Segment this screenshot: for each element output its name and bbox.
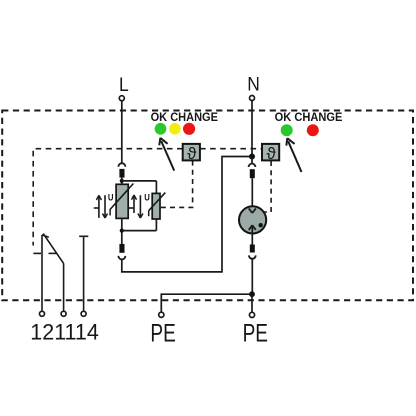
varistor V2 diagonal foot: [148, 210, 150, 216]
fuse element upper left branch: [119, 169, 124, 178]
junction dot PE: [249, 291, 255, 297]
svg-text:ϑ: ϑ: [187, 144, 197, 163]
thermal disconnect box theta (left): [183, 144, 200, 163]
wire fuse to top rail: [121, 178, 123, 185]
varistor V1 u-arrows group: [94, 195, 108, 218]
LED red (left): [183, 123, 195, 135]
wire N branch down to PE junction: [251, 259, 253, 294]
wire gas tube to fuse: [251, 233, 253, 244]
LED green (left): [155, 123, 167, 135]
wire to right varistor top: [155, 181, 157, 194]
svg-text:PE: PE: [243, 319, 268, 347]
changeover switch lever: [43, 234, 63, 264]
svg-text:L: L: [119, 75, 129, 96]
enclosure outer dashed border: [2, 111, 413, 301]
svg-text:U: U: [108, 192, 114, 202]
terminal circle 12: [40, 311, 45, 316]
thermal disconnect box theta (right): [262, 144, 279, 163]
top rail wire: [122, 180, 157, 182]
switch actuator link bar: [33, 252, 41, 254]
svg-text:U: U: [144, 192, 150, 202]
fuse element upper N branch: [250, 169, 255, 178]
varistor V1 diagonal: [110, 184, 133, 210]
junction dot bottom rail: [120, 229, 124, 233]
mechanical linkage dashed: left thermal box to switch actuator (inner dashed L): [33, 149, 182, 246]
wire arrow into gas discharge tube: [251, 178, 253, 212]
svg-text:N: N: [247, 74, 260, 96]
junction dot N: [249, 154, 255, 160]
changeover switch terminal 14 wire: [83, 236, 85, 311]
gas tube electrode dot: [259, 223, 263, 227]
svg-text:OK CHANGE: OK CHANGE: [275, 110, 343, 124]
terminal circle 11: [61, 311, 66, 316]
disconnect arc upper N branch: [249, 164, 256, 167]
terminal L circle: [119, 96, 124, 101]
svg-text:PE: PE: [150, 319, 175, 347]
disconnect arc upper left branch: [118, 163, 125, 166]
varistor V2 body: [152, 193, 160, 219]
PE rail wire: [161, 294, 252, 312]
varistor V1 body: [116, 184, 128, 218]
svg-text:OK CHANGE: OK CHANGE: [151, 110, 218, 124]
wire L down: [121, 101, 123, 163]
junction dot top rail: [120, 179, 124, 183]
thermal sensing dashed link: right box down to gas tube: [264, 161, 271, 212]
svg-text:ϑ: ϑ: [266, 144, 276, 163]
gas discharge tube body: [239, 206, 266, 233]
mechanical linkage dashed: left box to right box across N: [200, 148, 262, 150]
svg-text:121114: 121114: [30, 320, 99, 345]
changeover switch terminal 12 wire: [41, 235, 43, 311]
changeover switch terminal 11 wire: [63, 263, 65, 311]
gas tube electrode arrow down: [249, 208, 256, 213]
wire left varistor bottom: [121, 218, 123, 244]
LED yellow (left): [169, 123, 181, 135]
thermal sensing dashed link: left box down to varistor: [161, 161, 193, 208]
wire left branch to N junction (loop): [122, 157, 252, 272]
varistor V2 diagonal: [149, 193, 166, 211]
terminal N circle: [250, 96, 255, 101]
changeover switch contact 12 tick: [42, 235, 49, 237]
LED red (right): [307, 124, 319, 136]
terminal circle 14: [81, 311, 86, 316]
disconnect arc lower left branch: [118, 256, 125, 260]
indicator arrow to green LED (right): [286, 138, 301, 172]
wire N down: [251, 101, 253, 157]
terminal PE circle (right): [249, 312, 254, 317]
disconnect arc lower N branch: [249, 255, 256, 258]
varistor V2 u-arrows group: [128, 195, 143, 218]
terminal PE circle (left): [159, 312, 164, 317]
varistor V1 diagonal foot: [109, 209, 111, 215]
indicator arrow to green LED (left): [159, 138, 174, 171]
wire N junction to disconnect: [251, 157, 253, 164]
LED green (right): [281, 124, 293, 136]
wire right varistor bottom: [155, 219, 157, 231]
fuse element lower N branch: [250, 245, 255, 253]
changeover switch contact 14 tick: [79, 235, 88, 237]
gas tube electrode arrow up: [251, 227, 253, 234]
wire junction to PE terminal: [251, 294, 253, 312]
bottom rail wire: [122, 230, 157, 232]
fuse element lower left branch: [119, 244, 124, 253]
